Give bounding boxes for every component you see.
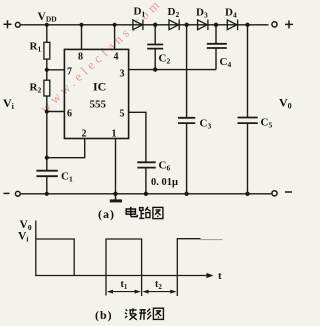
waveform t axis (35, 275, 209, 277)
junction C2 bottom / pin 3 bus (153, 67, 157, 71)
terminal + top right (272, 20, 293, 28)
junction R2 / pin 6 (45, 109, 49, 113)
svg-text:3: 3 (120, 69, 125, 80)
wire left column (46, 25, 48, 43)
wire C2 branch (154, 25, 156, 45)
terminal - bottom right (272, 191, 292, 196)
junction VDD rail / pin 8 (79, 23, 83, 27)
node A D1-D2 / C2 (153, 23, 157, 27)
op-amp IC U1 555 box (64, 49, 128, 138)
capacitor C3 (178, 118, 195, 123)
waveform pulse 3 faint tail (201, 239, 223, 241)
tick t0 (105, 276, 107, 296)
wire C3 branch (186, 25, 188, 118)
caption dian (126, 207, 137, 217)
wire pin7 (47, 69, 65, 71)
waveform y axis (35, 221, 37, 276)
svg-text:0. 01μ: 0. 01μ (151, 177, 178, 188)
wire pin5 to C6 (129, 112, 146, 162)
svg-text:2: 2 (82, 129, 87, 140)
diode D4 (227, 20, 237, 31)
svg-text:4: 4 (114, 52, 119, 63)
junction ground rail / C5 (245, 192, 249, 196)
t axis arrowhead (207, 273, 214, 278)
junction VDD rail / R1 (45, 23, 49, 27)
wire pin1 (115, 139, 117, 194)
wire C4 branch (215, 25, 217, 44)
junction R1-R2 / pin 7 (45, 68, 49, 72)
wire bottom rail (20, 193, 272, 195)
capacitor C6 (137, 162, 155, 167)
svg-text:t: t (218, 270, 222, 282)
svg-text:8: 8 (78, 52, 83, 63)
svg-text:1: 1 (112, 129, 117, 140)
svg-text:6: 6 (67, 109, 72, 120)
resistor R1 (44, 42, 50, 59)
junction C1 top / pin 2 (45, 156, 49, 160)
resistor R2 (44, 80, 50, 96)
capacitor C1 (36, 171, 57, 177)
tick t1 (141, 276, 143, 297)
wire top rail VDD (20, 24, 269, 26)
svg-text:7: 7 (67, 67, 72, 78)
capacitor C4 (207, 44, 227, 48)
svg-text:555: 555 (90, 99, 107, 111)
node D D4 / C5 output (245, 23, 249, 27)
junction ground rail / pin 1 (113, 192, 117, 196)
diode D2 (169, 20, 179, 31)
junction ground rail / C3 (184, 192, 188, 196)
wire pin2 (47, 139, 85, 158)
tick t2 (176, 276, 178, 297)
dim arrow t1 (108, 291, 140, 293)
junction ground rail / C1 (45, 192, 49, 196)
svg-text:IC: IC (93, 80, 106, 94)
waveform pulse 3 (177, 239, 200, 276)
dim arrowheads t1 (107, 290, 113, 294)
waveform pulse 2 (106, 239, 142, 276)
svg-text:(b): (b) (95, 308, 113, 322)
caption lu (139, 207, 150, 219)
capacitor C5 (238, 118, 258, 124)
waveform pulse 1 (36, 239, 74, 276)
caption xing (139, 309, 151, 320)
terminal + top left (4, 20, 21, 28)
junction VDD rail / pin 4 (113, 23, 117, 27)
caption tu (153, 207, 163, 218)
node B D2-D3 / C3 (184, 23, 188, 27)
svg-text:5: 5 (120, 109, 125, 120)
wire pin6 (47, 111, 65, 113)
junction ground rail / C6 (144, 192, 148, 196)
dim arrowheads t2 (143, 290, 149, 294)
node C D3-D4 / C4 (214, 23, 218, 27)
wire pin4 (114, 25, 116, 50)
diode D1 (133, 20, 143, 31)
wire right column C5 (247, 25, 249, 117)
capacitor C2 (147, 45, 163, 49)
caption tu2 (153, 308, 163, 319)
wire pin3 output bus (129, 69, 216, 71)
diode D3 (198, 20, 208, 31)
dim arrow t2 (144, 291, 176, 293)
svg-text:(a): (a) (98, 207, 115, 221)
wire pin8 (81, 25, 83, 50)
ground pin1 (115, 194, 117, 201)
terminal - bottom left (4, 191, 21, 196)
caption bo (125, 308, 137, 320)
